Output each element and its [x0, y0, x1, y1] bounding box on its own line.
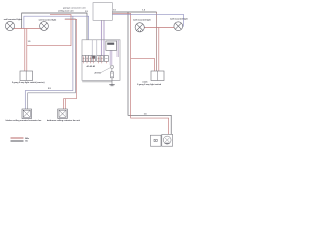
svg-text:bathroom ceiling extractor fan: bathroom ceiling extractor fan unit [47, 119, 80, 122]
svg-text:ceiling rose unit: ceiling rose unit [58, 9, 74, 12]
svg-text:garage consumer unit: garage consumer unit [63, 6, 86, 9]
svg-text:wall mounted light: wall mounted light [170, 17, 188, 20]
svg-text:2 gang 2 way light switch (mas: 2 gang 2 way light switch (master) [12, 81, 45, 84]
svg-text:kitchen ceiling mounted extrac: kitchen ceiling mounted extractor fan [6, 119, 42, 122]
svg-text:switch: switch [142, 80, 147, 83]
svg-text:wall mounted light: wall mounted light [133, 18, 151, 21]
svg-text:2 gang 2 way light switch: 2 gang 2 way light switch [137, 83, 162, 86]
svg-text:wall mounted light: wall mounted light [4, 18, 22, 21]
svg-text:1.5: 1.5 [142, 9, 145, 11]
svg-text:wall mounted light: wall mounted light [39, 19, 57, 22]
svg-text:A1 A2 A3: A1 A2 A3 [87, 65, 97, 68]
svg-text:JX 1N1: JX 1N1 [94, 73, 102, 75]
